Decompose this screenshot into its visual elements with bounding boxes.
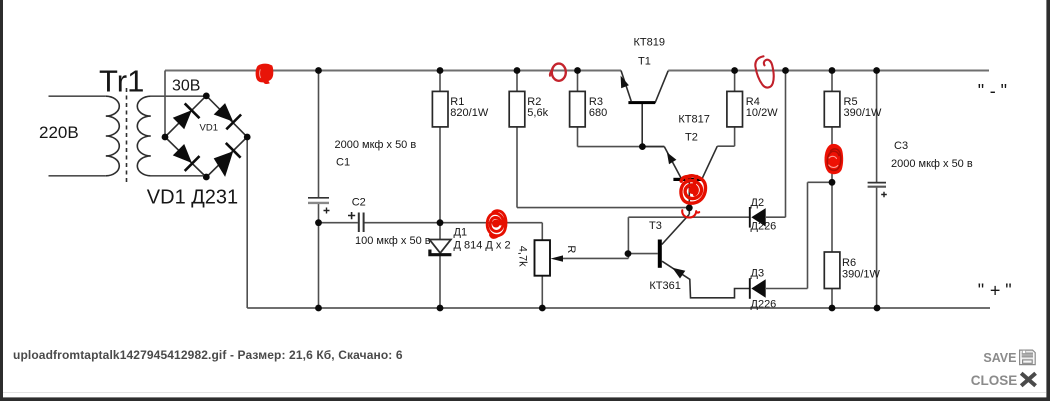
- svg-text:390/1W: 390/1W: [844, 107, 883, 119]
- svg-text:": ": [1005, 281, 1011, 301]
- svg-text:+: +: [990, 281, 1001, 301]
- svg-text:КТ817: КТ817: [678, 114, 709, 126]
- svg-text:5,6k: 5,6k: [527, 107, 548, 119]
- svg-text:VD1: VD1: [200, 123, 218, 134]
- svg-text:R: R: [565, 245, 577, 253]
- svg-text:C2: C2: [352, 197, 366, 209]
- svg-text:Д226: Д226: [751, 299, 777, 311]
- svg-text:VD1 Д231: VD1 Д231: [147, 187, 238, 209]
- svg-text:Tr1: Tr1: [99, 64, 144, 99]
- svg-text:C3: C3: [894, 140, 908, 152]
- svg-text:680: 680: [589, 107, 607, 119]
- svg-text:390/1W: 390/1W: [842, 269, 881, 281]
- svg-text:2000 мкф x 50 в: 2000 мкф x 50 в: [335, 139, 417, 151]
- svg-text:R6: R6: [842, 257, 856, 269]
- svg-text:100 мкф x 50 в: 100 мкф x 50 в: [355, 235, 431, 247]
- svg-text:CLOSE: CLOSE: [971, 373, 1018, 388]
- svg-text:820/1W: 820/1W: [450, 107, 489, 119]
- svg-text:": ": [1001, 81, 1007, 101]
- svg-text:Д1: Д1: [454, 227, 468, 239]
- svg-text:2000 мкф x 50 в: 2000 мкф x 50 в: [891, 158, 973, 170]
- svg-text:Д 814 Д х 2: Д 814 Д х 2: [454, 239, 511, 251]
- svg-text:-: -: [990, 81, 996, 101]
- svg-text:Д226: Д226: [751, 221, 777, 233]
- svg-text:uploadfromtaptalk1427945412982: uploadfromtaptalk1427945412982.gif - Раз…: [13, 348, 403, 362]
- svg-text:220В: 220В: [39, 123, 79, 142]
- svg-text:": ": [978, 281, 984, 301]
- svg-text:КТ819: КТ819: [634, 37, 665, 49]
- svg-text:C1: C1: [336, 157, 350, 169]
- svg-text:T1: T1: [638, 56, 651, 68]
- svg-text:T3: T3: [649, 220, 662, 232]
- svg-text:30В: 30В: [172, 78, 200, 95]
- svg-text:КТ361: КТ361: [649, 280, 680, 292]
- svg-text:SAVE: SAVE: [983, 351, 1016, 365]
- svg-text:T2: T2: [685, 132, 698, 144]
- svg-text:10/2W: 10/2W: [746, 107, 778, 119]
- svg-text:Д2: Д2: [751, 197, 765, 209]
- svg-text:": ": [978, 81, 984, 101]
- svg-text:4,7k: 4,7k: [516, 246, 528, 267]
- svg-text:Д3: Д3: [751, 268, 765, 280]
